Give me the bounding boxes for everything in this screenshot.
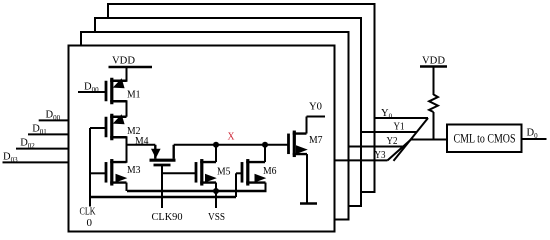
transistor M6 (NMOS, gate CLK0)	[236, 159, 277, 186]
svg-text:Y0: Y0	[381, 108, 393, 121]
sheet 1 (front MUX slice)	[69, 46, 335, 232]
wire Y3 bus line	[335, 159, 388, 161]
wire input D01	[28, 133, 69, 135]
wire Y0 bus line	[375, 117, 429, 119]
svg-text:CML to CMOS: CML to CMOS	[454, 132, 516, 146]
wire VDD to resistor	[433, 67, 435, 96]
wire merged output to CML block	[410, 139, 447, 141]
wire node A tap to M4	[127, 144, 156, 146]
wire M6 drain riser to X	[264, 145, 266, 162]
transistor M3 (NMOS, gate CLK0)	[90, 159, 141, 186]
junction dot M5 drain on X	[213, 142, 219, 148]
svg-text:M5: M5	[217, 166, 231, 178]
svg-text:0: 0	[87, 217, 93, 229]
wire M3 source drop	[126, 183, 128, 191]
wire node X (M4 to M7 gate)	[174, 144, 289, 146]
transistor M5 (NMOS, gate CLK90)	[162, 159, 231, 186]
svg-text:D03: D03	[3, 152, 18, 165]
VDD supply bar (sheet1)	[109, 66, 153, 68]
sheet 2 (copy of MUX slice)	[81, 32, 349, 220]
svg-text:M1: M1	[127, 89, 141, 101]
wire M7 drain riser	[306, 117, 308, 134]
transistor M2 (PMOS, gate CLK0)	[90, 114, 141, 141]
ground bar under M7	[300, 202, 317, 204]
wire VDD bar to M1 source	[126, 67, 128, 82]
wire input D00	[39, 119, 69, 121]
svg-text:Y3: Y3	[375, 149, 386, 161]
svg-text:CLK: CLK	[80, 206, 96, 218]
svg-text:VSS: VSS	[208, 211, 225, 223]
transistor M7 (NMOS output, gate X)	[289, 131, 323, 158]
wire Y2 bus line	[349, 146, 406, 148]
wire Y0 output stub	[307, 116, 326, 118]
wire CLK0 vertical (M2/M3 gates)	[89, 128, 91, 207]
junction dot M6 drain on X	[262, 142, 268, 148]
transistor M4 (NMOS horizontal, gate CLK90)	[135, 135, 176, 208]
svg-text:M3: M3	[127, 164, 141, 176]
wire M6 gate riser from CLK0 rail	[235, 173, 237, 197]
svg-text:Y2: Y2	[387, 135, 398, 147]
wire M2 drain to M3 drain	[126, 136, 128, 163]
sheet 3 (copy of MUX slice)	[95, 18, 361, 206]
svg-text:X: X	[228, 130, 235, 142]
block CML to CMOS	[447, 125, 522, 153]
svg-text:D02: D02	[20, 138, 35, 151]
wire VSS stub	[215, 191, 217, 208]
resistor R1 (load)	[429, 95, 438, 113]
wire source rail (M3-M5-M6)	[127, 190, 267, 192]
wire M7 source drop	[306, 154, 308, 203]
svg-text:VDD: VDD	[112, 55, 135, 67]
wire input D02	[16, 148, 69, 150]
wire CLK0 rail to M6 gate	[90, 196, 236, 198]
svg-text:Y0: Y0	[309, 101, 322, 113]
VDD supply bar (load)	[420, 65, 447, 67]
svg-text:Y1: Y1	[394, 121, 405, 133]
wire output D0	[522, 138, 547, 140]
junction dot VSS on source rail	[213, 188, 219, 194]
sheet 4 (back copy of MUX slice)	[108, 4, 375, 192]
transistor M1 (PMOS, gate D00)	[78, 78, 141, 105]
wire M1 drain to M2 source	[126, 100, 128, 117]
svg-text:D0: D0	[527, 128, 539, 141]
svg-text:VDD: VDD	[422, 55, 445, 67]
wire bus merge diagonal lower	[388, 140, 412, 161]
wire M6 source drop	[265, 183, 267, 191]
wire input D03	[3, 161, 69, 163]
wire M5 drain riser to X	[215, 145, 217, 162]
svg-text:M4: M4	[135, 135, 149, 147]
wire resistor to output node	[433, 112, 435, 140]
wire bus merge diagonal upper	[394, 118, 429, 161]
wire M5 source drop	[215, 183, 217, 191]
svg-text:D01: D01	[32, 124, 47, 137]
wire Y1 bus line	[361, 131, 417, 133]
svg-text:M6: M6	[263, 165, 277, 177]
svg-text:D00: D00	[46, 110, 61, 123]
svg-text:CLK90: CLK90	[152, 211, 183, 223]
svg-text:M7: M7	[309, 134, 323, 146]
